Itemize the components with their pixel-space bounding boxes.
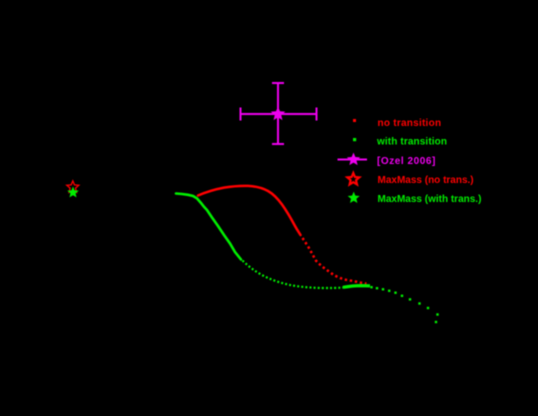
svg-text:no transition: no transition bbox=[378, 118, 442, 129]
green curve dotted middle (with transition) bbox=[243, 261, 344, 289]
green curve solid (with transition) bbox=[176, 194, 241, 260]
legend marker magenta line with star bbox=[338, 159, 368, 161]
red curve dotted (no transition) bbox=[303, 238, 367, 284]
magenta data point [Ozel 2006] horizontal error bar bbox=[241, 108, 317, 121]
legend marker red dot bbox=[353, 119, 356, 122]
legend marker red open star bbox=[347, 173, 359, 184]
red curve solid (no transition) bbox=[198, 186, 301, 235]
svg-text:[Ozel 2006]: [Ozel 2006] bbox=[377, 156, 436, 167]
magenta data point vertical error bar bbox=[272, 83, 284, 144]
legend marker green star bbox=[348, 192, 360, 203]
left green star MaxMass (with trans.) bbox=[67, 187, 78, 198]
svg-text:MaxMass (with trans.): MaxMass (with trans.) bbox=[378, 194, 482, 205]
green curve solid bump segment bbox=[343, 286, 370, 288]
svg-text:MaxMass (no trans.): MaxMass (no trans.) bbox=[378, 175, 474, 186]
green curve tail dots bbox=[370, 286, 438, 323]
svg-text:with transition: with transition bbox=[376, 137, 447, 148]
magenta star marker at data point bbox=[271, 106, 285, 120]
legend marker green dot bbox=[353, 138, 356, 141]
left red open star MaxMass (no trans.) bbox=[67, 181, 79, 192]
